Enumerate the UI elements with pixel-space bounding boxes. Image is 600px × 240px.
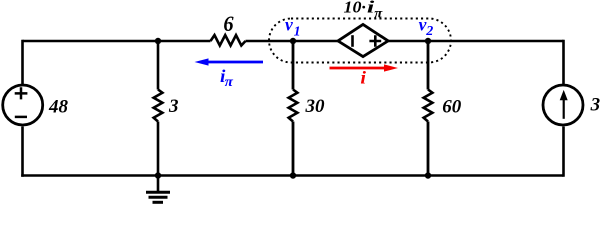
- current source I1 3A circle: [543, 85, 583, 125]
- dependent source minus bar: [351, 35, 354, 47]
- svg-text:π: π: [374, 6, 382, 21]
- svg-text:v: v: [285, 14, 293, 34]
- dependent source plus sign: [369, 35, 381, 47]
- svg-text:3: 3: [168, 96, 179, 117]
- svg-text:3: 3: [590, 95, 600, 116]
- wire branch v1 leads: [292, 41, 295, 176]
- ground junction dot: [155, 172, 161, 178]
- current arrow i_pi blue: [207, 61, 263, 64]
- voltage source minus sign: [15, 116, 27, 119]
- svg-text:10·: 10·: [344, 0, 366, 17]
- voltage source V1 48V circle: [3, 85, 43, 125]
- current source arrow: [563, 97, 565, 119]
- wire branch node A leads: [157, 41, 160, 176]
- wire top rail middle segment: [246, 40, 339, 43]
- current arrow i red: [330, 67, 386, 70]
- wire left rail: [21, 40, 24, 177]
- voltage source plus sign: [15, 87, 28, 99]
- wire top rail right segment: [388, 40, 564, 43]
- wire bottom rail: [21, 174, 563, 177]
- resistor R 3ohm body: [154, 90, 163, 122]
- dependent source U1 diamond: [338, 24, 388, 56]
- ground symbol: [157, 176, 160, 193]
- svg-text:i: i: [360, 68, 366, 88]
- svg-text:48: 48: [48, 97, 69, 118]
- node A junction dot top: [155, 38, 161, 44]
- wire right rail: [562, 40, 565, 177]
- svg-text:30: 30: [305, 96, 326, 117]
- resistor R 6ohm body: [211, 35, 246, 45]
- resistor R 60ohm body: [424, 90, 433, 122]
- node v2 junction dot: [425, 38, 431, 44]
- dotted ellipse around dependent source: [269, 19, 451, 63]
- resistor R 30ohm body: [289, 90, 298, 122]
- bottom junction dot v2 branch: [425, 172, 431, 178]
- bottom junction dot v1 branch: [290, 172, 296, 178]
- svg-text:2: 2: [425, 24, 433, 39]
- svg-text:1: 1: [294, 25, 301, 40]
- wire branch v2 leads: [427, 41, 430, 176]
- svg-text:60: 60: [442, 96, 462, 117]
- svg-text:6: 6: [223, 11, 233, 36]
- wire top rail left segment: [23, 40, 211, 43]
- node v1 junction dot: [290, 38, 296, 44]
- svg-text:π: π: [225, 75, 234, 90]
